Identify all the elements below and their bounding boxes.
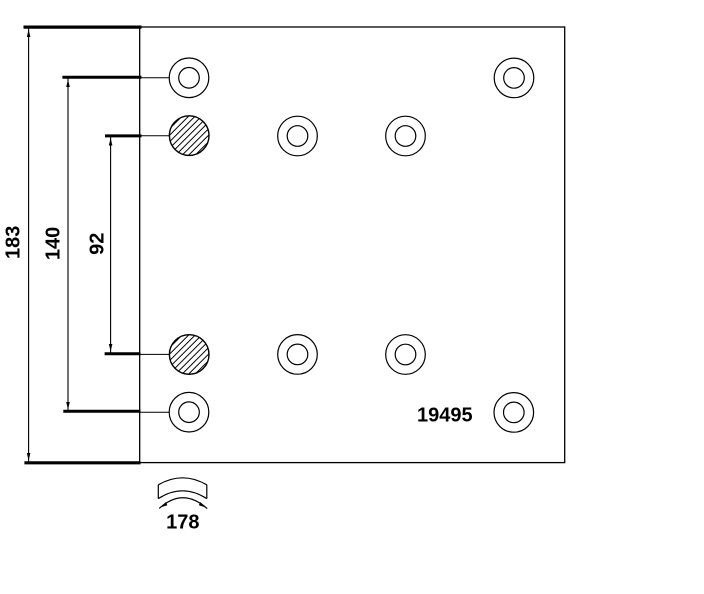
hole H2 hatched row2 [133,106,245,166]
svg-text:140: 140 [42,227,64,260]
svg-text:19495: 19495 [417,405,473,427]
hole H8 row3 right-middle [386,335,426,375]
wire: connector line row4 to hole tangent [140,411,170,413]
hole H1 top-left [169,58,209,98]
svg-text:92: 92 [86,233,108,255]
extension line 92 bottom [105,352,141,355]
wire: connector line row2 to hatched hole [140,135,171,137]
extension line 140 top [62,76,141,79]
extension line 92 top [105,134,142,137]
arc-width curved arrow [159,498,207,509]
hole H7 row3 middle [278,335,318,375]
hole H6 hatched row3 [133,325,245,385]
extension line 183 top [24,26,142,29]
svg-text:183: 183 [3,226,25,259]
wire: connector line row1 to hole tangent [140,77,170,79]
hole H10 bottom-right [494,393,534,433]
wire: connector line row3 to hatched hole [140,353,171,355]
dimension line 140 [66,78,70,411]
hole H3 row2 middle [278,116,318,156]
extension line 183 bottom [24,461,140,464]
hole H4 row2 right-middle [386,116,426,156]
extension line 140 bottom [63,410,140,413]
svg-text:178: 178 [166,512,199,534]
dimension line 92 [109,137,113,354]
arc-width symbol band [158,478,207,499]
hole H9 bottom-left [169,392,209,432]
dimension line 183 [27,28,31,462]
hole H5 top-right [494,58,534,98]
brake lining plate outline [140,27,565,463]
